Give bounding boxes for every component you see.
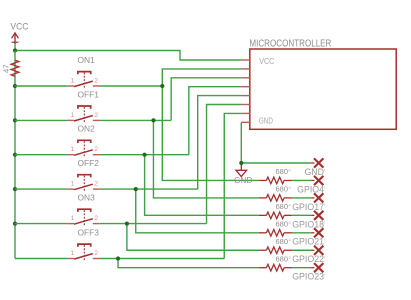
svg-text:1: 1 (71, 146, 75, 153)
svg-text:680: 680 (275, 254, 288, 263)
switch ON3 (67, 193, 99, 227)
net label GPIO17 (292, 193, 324, 212)
pin 3 microcontroller (241, 77, 250, 79)
wire rail to switch ON3 (15, 223, 67, 225)
svg-text:GPIO18: GPIO18 (292, 219, 324, 229)
wire OFF3 up to microcontroller pin 7 (224, 113, 241, 258)
svg-text:GPIO21: GPIO21 (292, 237, 324, 247)
resistor 680 (GPIO22) (259, 237, 292, 254)
wire OFF2 to junction (100, 188, 198, 190)
wire resistor to net label GPIO4 (292, 179, 312, 181)
wire OFF2 down to resistor row GPIO21 (136, 189, 259, 233)
svg-text:GND: GND (259, 117, 273, 126)
wire ON1 to junction (100, 85, 163, 87)
svg-text:VCC: VCC (259, 57, 274, 66)
junction rail / ON1 (13, 84, 17, 88)
wire OFF3 to junction (100, 258, 225, 260)
wire ON3 to junction (100, 223, 207, 225)
wire OFF1 to junction (100, 119, 172, 121)
wire resistor to net label GPIO22 (292, 249, 312, 251)
svg-text:VCC: VCC (10, 20, 28, 31)
wire GND junction to net label GND (241, 162, 310, 164)
resistor 680 (GPIO23) (259, 254, 292, 271)
wire VCC rail vertical (14, 51, 16, 259)
wire microcontroller GND down (240, 122, 242, 163)
svg-text:MICROCONTROLLER: MICROCONTROLLER (249, 39, 331, 50)
wire ON3 up to microcontroller pin 6 (207, 105, 242, 224)
resistor 680 (GPIO17) (259, 185, 292, 202)
junction OFF3 branch (116, 256, 120, 260)
switch ON2 (67, 124, 99, 158)
wire resistor to net label GPIO21 (292, 232, 312, 234)
junction rail / OFF2 (13, 187, 17, 191)
svg-text:680: 680 (275, 185, 288, 194)
pin 4 microcontroller (241, 86, 250, 88)
pin 5 microcontroller (241, 95, 250, 97)
wire ON2 up to microcontroller pin 4 (189, 87, 241, 155)
junction VCC rail top (13, 48, 17, 52)
junction rail / OFF1 (13, 118, 17, 122)
wire rail to switch OFF2 (15, 188, 67, 190)
svg-text:OFF2: OFF2 (78, 158, 100, 168)
pin 2 microcontroller (241, 68, 250, 70)
pin 6 microcontroller (241, 104, 250, 106)
resistor 680 (GPIO4) (259, 167, 292, 184)
svg-text:GPIO22: GPIO22 (292, 254, 324, 264)
net label GPIO18 (292, 211, 324, 230)
net label GPIO23 (292, 263, 324, 282)
svg-text:2: 2 (94, 215, 98, 222)
svg-text:47: 47 (2, 65, 11, 73)
svg-text:2: 2 (94, 77, 98, 84)
junction GND (239, 161, 243, 165)
svg-text:1: 1 (71, 250, 75, 257)
junction ON3 branch (125, 222, 129, 226)
resistor 680 (GPIO18) (259, 202, 292, 219)
wire rail to switch ON2 (15, 154, 67, 156)
wire ON3 down to resistor row GPIO22 (127, 224, 259, 251)
net label GPIO21 (292, 228, 324, 247)
wire ON2 down to resistor row GPIO18 (145, 155, 259, 216)
wire OFF1 down to resistor row GPIO17 (153, 120, 258, 197)
svg-text:ON1: ON1 (78, 55, 96, 65)
wire rail to switch OFF1 (15, 119, 67, 121)
svg-text:2: 2 (94, 112, 98, 119)
wire ON1 down to resistor row GPIO4 (162, 86, 259, 180)
junction rail / ON2 (13, 153, 17, 157)
wire resistor to net label GPIO17 (292, 197, 312, 199)
svg-text:GPIO17: GPIO17 (292, 202, 324, 212)
svg-text:1: 1 (71, 77, 75, 84)
wire resistor to net label GPIO23 (292, 267, 312, 269)
wire resistor to net label GPIO18 (292, 214, 312, 216)
resistor 680 (GPIO21) (259, 219, 292, 236)
switch OFF1 (67, 89, 99, 123)
pin GND microcontroller (241, 121, 250, 123)
wire rail to switch ON1 (15, 85, 67, 87)
svg-text:GND: GND (304, 167, 324, 177)
junction OFF1 branch (151, 118, 155, 122)
wire VCC flag to rail (14, 44, 16, 51)
svg-text:OFF1: OFF1 (78, 89, 100, 99)
svg-text:1: 1 (71, 181, 75, 188)
net label GND (304, 158, 324, 177)
wire OFF1 up to microcontroller pin 3 (171, 78, 241, 121)
power flag VCC (10, 20, 28, 44)
junction ON1 branch (160, 84, 164, 88)
svg-text:ON3: ON3 (78, 193, 96, 203)
microcontroller U1 (249, 39, 396, 130)
wire OFF3 down to resistor row GPIO23 (118, 259, 259, 268)
svg-text:2: 2 (94, 250, 98, 257)
junction rail / ON3 (13, 222, 17, 226)
net label GPIO4 (297, 176, 324, 195)
net label GPIO22 (292, 246, 324, 265)
svg-text:GND: GND (234, 176, 252, 185)
svg-text:2: 2 (94, 146, 98, 153)
wire ON1 up to microcontroller pin 2 (162, 69, 241, 86)
ground symbol (234, 163, 252, 185)
svg-text:1: 1 (71, 112, 75, 119)
pin 1 microcontroller (241, 59, 250, 61)
switch OFF2 (67, 158, 99, 192)
svg-text:OFF3: OFF3 (78, 228, 100, 238)
switch OFF3 (67, 228, 99, 262)
svg-text:680: 680 (275, 202, 288, 211)
switch ON1 (67, 55, 99, 89)
resistor 47 (2, 60, 19, 76)
svg-text:GPIO4: GPIO4 (297, 184, 324, 194)
wire OFF2 up to microcontroller pin 5 (198, 96, 242, 190)
svg-text:680: 680 (275, 237, 288, 246)
svg-text:1: 1 (71, 215, 75, 222)
svg-text:680: 680 (275, 219, 288, 228)
wire VCC rail to microcontroller VCC pin (15, 51, 241, 61)
svg-text:680: 680 (275, 167, 288, 176)
svg-text:GPIO23: GPIO23 (292, 272, 324, 282)
wire ON2 to junction (100, 154, 189, 156)
junction ON2 branch (143, 153, 147, 157)
svg-text:ON2: ON2 (78, 124, 96, 134)
junction OFF2 branch (134, 187, 138, 191)
svg-text:2: 2 (94, 181, 98, 188)
wire rail to switch OFF3 (15, 258, 67, 260)
pin 7 microcontroller (241, 112, 250, 114)
